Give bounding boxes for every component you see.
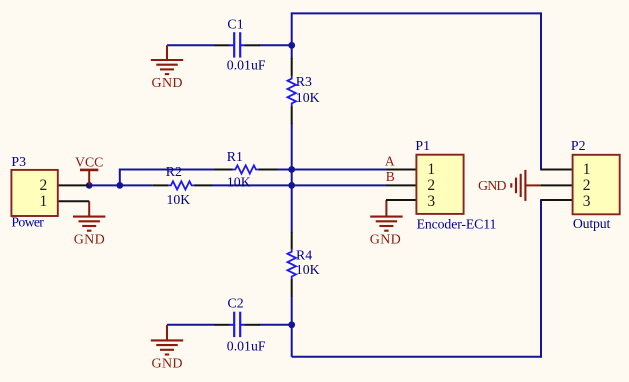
GND bar 4	[87, 230, 91, 232]
C2 left plate	[233, 312, 235, 337]
svg-text:2: 2	[427, 177, 435, 194]
GND bar 2	[79, 220, 100, 222]
P2 pin 2	[541, 184, 573, 186]
svg-text:A: A	[385, 154, 395, 169]
C1 left plate	[233, 32, 235, 57]
connector P2 Output	[540, 138, 619, 231]
GND bar 3	[160, 68, 174, 70]
R1 zigzag	[232, 165, 259, 173]
R4 bottom pin	[291, 279, 293, 296]
svg-text:3: 3	[427, 193, 435, 210]
svg-text:P1: P1	[415, 138, 430, 153]
P2 pin 1	[540, 169, 572, 171]
P2 pin 3	[540, 199, 572, 201]
capacitor C2	[215, 296, 266, 354]
R3 top pin	[291, 58, 293, 76]
svg-text:B: B	[386, 169, 395, 184]
wire row B (R2 to P1 pin 2)	[212, 184, 387, 186]
P3 body	[11, 170, 57, 216]
C2 right plate	[239, 312, 241, 337]
R3 zigzag	[288, 76, 296, 107]
wire between row A and row B	[291, 170, 293, 186]
resistor R1	[214, 149, 277, 190]
wire C1 row left (GND to C1)	[167, 44, 215, 46]
node C1 junction	[288, 42, 295, 49]
wire row B to R4	[291, 185, 293, 232]
C1 right plate	[239, 32, 241, 57]
svg-text:Encoder-EC11: Encoder-EC11	[417, 216, 497, 231]
GND bar 3	[379, 225, 393, 227]
GND bar 3	[515, 178, 517, 194]
GND bar 1	[151, 59, 183, 61]
GND bar 1	[151, 339, 183, 341]
GND stem	[88, 201, 90, 216]
node VCC junction	[86, 182, 93, 189]
svg-text:1: 1	[427, 161, 435, 178]
GND bar 2	[376, 220, 397, 222]
svg-text:Power: Power	[11, 215, 44, 230]
svg-text:GND: GND	[152, 356, 183, 371]
P3 pin 1	[58, 200, 89, 202]
svg-text:2: 2	[40, 177, 48, 194]
resistor R3	[288, 58, 320, 124]
GND wire	[526, 184, 542, 186]
GND bar 1	[73, 216, 105, 218]
VCC bar	[80, 169, 98, 172]
wire R3 bottom to row A	[291, 124, 293, 170]
P1 pin 1	[386, 169, 416, 171]
svg-text:GND: GND	[370, 232, 401, 247]
svg-text:2: 2	[583, 177, 591, 194]
svg-text:10K: 10K	[296, 90, 320, 105]
GND stem	[166, 325, 168, 341]
wire C2 row left (GND to C2)	[167, 324, 215, 326]
R2 right pin	[194, 184, 212, 186]
P1 pin 3	[386, 199, 416, 201]
GND bar 4	[165, 73, 169, 75]
ground GND under P1	[370, 200, 403, 247]
wire top bus	[292, 12, 541, 14]
wire C2 row right (C2 to junction)	[260, 324, 292, 326]
svg-text:10K: 10K	[296, 262, 320, 277]
wire row A (VCC branch corner to R1)	[120, 170, 215, 186]
svg-text:P3: P3	[11, 154, 26, 169]
GND bar 4	[384, 230, 388, 232]
wire row A (R1 to P1 pin 1)	[277, 169, 386, 171]
C2 right pin	[241, 324, 245, 326]
C2 left pin	[215, 324, 230, 326]
GND bar 4	[165, 353, 169, 355]
GND bar 3	[82, 225, 96, 227]
P1 body	[416, 155, 463, 214]
wire right bus lower (to P2 pin 3)	[540, 200, 542, 358]
VCC stem	[88, 170, 90, 186]
resistor R2	[152, 164, 212, 207]
wire R4 bottom to bottom bus	[291, 296, 293, 357]
ground GND bottom-left (C2)	[151, 325, 183, 372]
svg-text:R1: R1	[227, 149, 243, 164]
R4 zigzag	[288, 249, 296, 280]
GND stem	[385, 200, 387, 217]
GND bar 4	[510, 183, 512, 187]
ground GND under P3	[73, 201, 105, 247]
svg-text:GND: GND	[478, 179, 507, 194]
resistor R4	[288, 232, 320, 297]
wire row B (VCC junction to R2)	[89, 184, 152, 186]
wire left vertical top (top bus to R3)	[291, 12, 293, 59]
R4 top pin	[291, 232, 293, 249]
GND bar 2	[156, 344, 177, 346]
node row A junction	[288, 166, 295, 173]
svg-text:3: 3	[583, 193, 591, 210]
power VCC	[75, 155, 103, 186]
svg-text:10K: 10K	[167, 192, 191, 207]
P3 pin 2	[58, 184, 89, 186]
R3 bottom pin	[291, 106, 293, 124]
C1 right pin	[241, 44, 245, 46]
svg-text:P2: P2	[571, 138, 586, 153]
R1 right pin	[259, 169, 278, 171]
ground GND at P2 pin 2 (horizontal)	[478, 170, 542, 201]
R2 left pin	[152, 184, 168, 186]
GND bar 2	[156, 64, 177, 66]
svg-text:10K: 10K	[227, 174, 251, 189]
GND bar 1	[370, 216, 402, 218]
R2 zigzag	[168, 181, 195, 189]
P1 pin 2	[386, 184, 416, 186]
svg-text:GND: GND	[74, 232, 105, 247]
GND bar 2	[520, 174, 522, 197]
node branch corner junction	[116, 182, 123, 189]
svg-text:0.01uF: 0.01uF	[227, 57, 266, 72]
ground GND top-left (C1)	[151, 45, 183, 91]
svg-text:R4: R4	[296, 248, 312, 263]
wire C1 row right (C1 to junction)	[260, 44, 292, 46]
svg-text:C2: C2	[228, 296, 244, 311]
wire right bus upper (to P2 pin 1)	[540, 12, 542, 169]
GND bar 3	[160, 349, 174, 351]
connector P3	[11, 154, 89, 230]
GND bar 1	[524, 170, 526, 201]
svg-text:1: 1	[583, 161, 591, 178]
R1 left pin	[214, 169, 232, 171]
svg-text:C1: C1	[227, 17, 243, 32]
GND stem	[166, 45, 168, 60]
svg-text:GND: GND	[152, 76, 183, 91]
svg-text:Output: Output	[573, 216, 611, 231]
capacitor C1	[215, 17, 266, 73]
wire bottom bus	[292, 356, 541, 358]
P2 body	[573, 155, 620, 215]
node row B junction	[288, 182, 295, 189]
svg-text:1: 1	[40, 193, 48, 210]
svg-text:R3: R3	[296, 74, 312, 89]
node C2 junction	[288, 321, 295, 328]
connector P1 Encoder-EC11	[386, 138, 496, 231]
svg-text:0.01uF: 0.01uF	[227, 338, 266, 353]
svg-text:R2: R2	[166, 164, 182, 179]
svg-text:VCC: VCC	[75, 155, 103, 170]
C1 left pin	[215, 44, 230, 46]
